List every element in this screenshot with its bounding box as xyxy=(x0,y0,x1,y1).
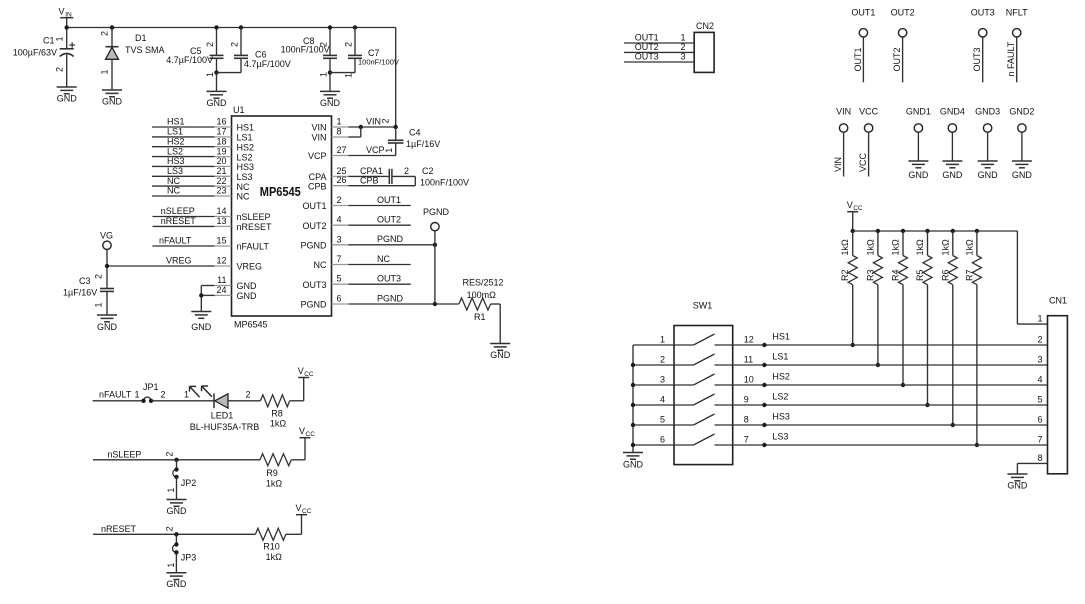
svg-text:20: 20 xyxy=(216,156,226,166)
svg-text:PGND: PGND xyxy=(300,300,327,310)
svg-text:2: 2 xyxy=(381,118,391,123)
svg-text:R9: R9 xyxy=(266,468,278,478)
svg-text:9: 9 xyxy=(744,395,749,405)
svg-text:1kΩ: 1kΩ xyxy=(891,239,901,256)
svg-text:C3: C3 xyxy=(79,276,91,286)
svg-text:LS1: LS1 xyxy=(772,351,788,361)
svg-text:2: 2 xyxy=(337,195,342,205)
svg-text:CC: CC xyxy=(306,431,316,438)
svg-text:OUT2: OUT2 xyxy=(635,42,659,52)
svg-text:JP3: JP3 xyxy=(181,553,197,563)
svg-text:R10: R10 xyxy=(263,542,280,552)
svg-text:CN2: CN2 xyxy=(696,21,714,31)
svg-text:LS2: LS2 xyxy=(772,391,788,401)
svg-text:nRESET: nRESET xyxy=(101,524,137,534)
svg-text:OUT3: OUT3 xyxy=(972,47,982,71)
svg-text:2: 2 xyxy=(94,274,104,279)
svg-text:CN1: CN1 xyxy=(1049,296,1067,306)
svg-text:VIN: VIN xyxy=(311,123,326,133)
svg-text:4.7µF/100V: 4.7µF/100V xyxy=(166,55,213,65)
svg-text:1kΩ: 1kΩ xyxy=(270,419,287,429)
svg-text:HS3: HS3 xyxy=(237,162,255,172)
svg-text:OUT1: OUT1 xyxy=(853,47,863,71)
svg-text:100nF/100V: 100nF/100V xyxy=(358,58,399,67)
svg-text:D1: D1 xyxy=(135,33,147,43)
svg-text:3: 3 xyxy=(660,375,665,385)
svg-text:GND: GND xyxy=(978,170,999,180)
svg-text:TVS SMA: TVS SMA xyxy=(125,45,165,55)
svg-text:2: 2 xyxy=(205,42,215,47)
svg-text:OUT1: OUT1 xyxy=(302,201,326,211)
svg-text:OUT3: OUT3 xyxy=(377,274,401,284)
svg-text:C4: C4 xyxy=(409,128,421,138)
svg-text:26: 26 xyxy=(337,175,347,185)
svg-text:OUT2: OUT2 xyxy=(302,221,326,231)
svg-text:VCC: VCC xyxy=(858,152,868,172)
svg-text:CC: CC xyxy=(304,371,314,378)
svg-text:4: 4 xyxy=(660,395,665,405)
svg-text:BL-HUF35A-TRB: BL-HUF35A-TRB xyxy=(190,422,260,432)
svg-text:2: 2 xyxy=(660,355,665,365)
svg-text:2: 2 xyxy=(161,390,166,400)
svg-text:LS1: LS1 xyxy=(237,133,253,143)
svg-text:1kΩ: 1kΩ xyxy=(266,552,283,562)
svg-text:nSLEEP: nSLEEP xyxy=(107,449,141,459)
svg-text:VIN: VIN xyxy=(366,116,381,126)
svg-text:CPB: CPB xyxy=(308,181,327,191)
svg-text:7: 7 xyxy=(1037,435,1042,445)
svg-text:R1: R1 xyxy=(474,312,486,322)
svg-text:GND: GND xyxy=(623,460,644,470)
svg-text:PGND: PGND xyxy=(377,234,404,244)
svg-text:2: 2 xyxy=(680,42,685,52)
svg-text:OUT1: OUT1 xyxy=(377,195,401,205)
svg-text:VCP: VCP xyxy=(308,151,327,161)
svg-text:22: 22 xyxy=(216,176,226,186)
svg-text:17: 17 xyxy=(216,127,226,137)
svg-text:1: 1 xyxy=(660,335,665,345)
svg-text:CC: CC xyxy=(302,508,312,515)
svg-text:1: 1 xyxy=(55,36,65,41)
svg-text:14: 14 xyxy=(216,206,226,216)
svg-text:VIN: VIN xyxy=(311,133,326,143)
svg-text:2: 2 xyxy=(404,166,409,176)
svg-text:R3: R3 xyxy=(865,269,875,281)
svg-text:OUT3: OUT3 xyxy=(302,280,326,290)
svg-text:4: 4 xyxy=(1037,375,1042,385)
svg-text:1: 1 xyxy=(337,117,342,127)
svg-text:PGND: PGND xyxy=(423,207,450,217)
svg-text:GND2: GND2 xyxy=(1009,107,1034,117)
svg-text:1kΩ: 1kΩ xyxy=(266,479,283,489)
svg-text:2: 2 xyxy=(1037,335,1042,345)
svg-text:GND: GND xyxy=(97,322,118,332)
svg-text:nRESET: nRESET xyxy=(161,216,197,226)
svg-text:15: 15 xyxy=(216,236,226,246)
svg-text:GND: GND xyxy=(908,170,929,180)
svg-text:RES/2512: RES/2512 xyxy=(463,278,504,288)
svg-text:R7: R7 xyxy=(964,269,974,281)
svg-text:1kΩ: 1kΩ xyxy=(964,239,974,256)
svg-text:8: 8 xyxy=(744,415,749,425)
svg-text:NC: NC xyxy=(237,192,250,202)
svg-text:IN: IN xyxy=(65,12,72,19)
svg-text:C6: C6 xyxy=(255,50,267,60)
svg-text:11: 11 xyxy=(217,275,226,285)
svg-text:JP2: JP2 xyxy=(181,478,197,488)
svg-text:GND: GND xyxy=(1007,481,1028,491)
svg-text:13: 13 xyxy=(216,216,226,226)
svg-text:GND: GND xyxy=(1012,170,1033,180)
svg-text:R2: R2 xyxy=(840,269,850,281)
svg-text:LS2: LS2 xyxy=(167,146,183,156)
svg-text:3: 3 xyxy=(1037,355,1042,365)
svg-text:LED1: LED1 xyxy=(211,410,234,420)
svg-text:GND: GND xyxy=(57,94,78,104)
svg-text:18: 18 xyxy=(216,136,226,146)
svg-text:NC: NC xyxy=(167,176,180,186)
svg-text:OUT2: OUT2 xyxy=(891,8,915,18)
svg-text:GND: GND xyxy=(167,506,188,516)
svg-text:OUT3: OUT3 xyxy=(635,52,659,62)
svg-text:nFAULT: nFAULT xyxy=(237,242,270,252)
svg-text:SW1: SW1 xyxy=(693,301,713,311)
svg-text:V: V xyxy=(847,200,853,210)
svg-text:2: 2 xyxy=(165,452,175,457)
svg-text:1kΩ: 1kΩ xyxy=(915,239,925,256)
svg-text:GND: GND xyxy=(237,291,258,301)
svg-text:HS1: HS1 xyxy=(237,123,255,133)
svg-text:2: 2 xyxy=(100,31,110,36)
svg-text:7: 7 xyxy=(744,435,749,445)
svg-text:GND: GND xyxy=(102,97,123,107)
svg-text:NC: NC xyxy=(237,182,250,192)
svg-text:19: 19 xyxy=(216,146,226,156)
svg-text:GND: GND xyxy=(942,170,963,180)
svg-text:GND: GND xyxy=(207,98,228,108)
svg-text:LS2: LS2 xyxy=(237,152,253,162)
svg-text:C2: C2 xyxy=(422,166,434,176)
svg-text:100nF/100V: 100nF/100V xyxy=(420,178,469,188)
svg-text:27: 27 xyxy=(337,145,347,155)
svg-text:23: 23 xyxy=(216,186,226,196)
svg-text:V: V xyxy=(299,426,305,436)
svg-text:LS1: LS1 xyxy=(167,127,183,137)
svg-text:11: 11 xyxy=(744,355,753,365)
svg-text:VIN: VIN xyxy=(833,157,843,172)
svg-text:VG: VG xyxy=(100,231,113,241)
svg-text:NC: NC xyxy=(314,260,327,270)
svg-text:HS3: HS3 xyxy=(167,156,185,166)
svg-text:GND3: GND3 xyxy=(975,107,1000,117)
svg-text:C1: C1 xyxy=(43,36,55,46)
svg-text:8: 8 xyxy=(337,127,342,137)
svg-text:GND: GND xyxy=(320,98,341,108)
svg-text:1µF/16V: 1µF/16V xyxy=(406,139,440,149)
svg-text:OUT1: OUT1 xyxy=(851,8,875,18)
svg-text:HS3: HS3 xyxy=(772,411,790,421)
svg-text:12: 12 xyxy=(744,335,754,345)
svg-text:1: 1 xyxy=(100,69,110,74)
svg-text:VREG: VREG xyxy=(237,262,263,272)
svg-text:7: 7 xyxy=(337,254,342,264)
svg-text:1: 1 xyxy=(319,72,329,77)
svg-text:CPB: CPB xyxy=(360,175,379,185)
svg-text:16: 16 xyxy=(216,117,226,127)
svg-text:VCP: VCP xyxy=(366,145,385,155)
svg-text:2: 2 xyxy=(246,390,251,400)
svg-text:HS2: HS2 xyxy=(237,142,255,152)
svg-text:2: 2 xyxy=(55,67,65,72)
svg-text:1µF/16V: 1µF/16V xyxy=(63,288,97,298)
svg-text:21: 21 xyxy=(216,166,226,176)
svg-text:1: 1 xyxy=(135,390,140,400)
svg-text:1: 1 xyxy=(166,563,176,568)
svg-text:10: 10 xyxy=(744,375,754,385)
svg-text:4.7µF/100V: 4.7µF/100V xyxy=(244,59,291,69)
svg-text:R5: R5 xyxy=(915,269,925,281)
svg-text:HS1: HS1 xyxy=(167,117,185,127)
svg-text:2: 2 xyxy=(344,42,354,47)
svg-text:R8: R8 xyxy=(271,408,283,418)
svg-text:1: 1 xyxy=(384,148,394,153)
svg-text:nFAULT: nFAULT xyxy=(99,390,132,400)
svg-text:6: 6 xyxy=(1037,415,1042,425)
svg-text:JP1: JP1 xyxy=(143,382,159,392)
svg-text:OUT2: OUT2 xyxy=(892,47,902,71)
svg-text:U1: U1 xyxy=(233,105,245,115)
svg-text:GND: GND xyxy=(166,579,187,589)
svg-text:5: 5 xyxy=(660,415,665,425)
svg-text:NC: NC xyxy=(167,186,180,196)
svg-text:V: V xyxy=(298,366,304,376)
svg-text:3: 3 xyxy=(680,52,685,62)
svg-text:HS2: HS2 xyxy=(167,136,185,146)
svg-text:1: 1 xyxy=(344,73,354,78)
svg-text:PGND: PGND xyxy=(300,241,327,251)
svg-text:GND: GND xyxy=(191,322,212,332)
svg-text:nSLEEP: nSLEEP xyxy=(161,206,195,216)
svg-text:1: 1 xyxy=(205,72,215,77)
svg-text:n FAULT: n FAULT xyxy=(1006,41,1016,76)
svg-text:2: 2 xyxy=(164,526,174,531)
svg-text:VCC: VCC xyxy=(859,107,879,117)
svg-text:GND: GND xyxy=(237,281,258,291)
svg-text:V: V xyxy=(59,7,65,17)
svg-text:12: 12 xyxy=(216,256,226,266)
svg-text:1: 1 xyxy=(184,390,189,400)
svg-text:NFLT: NFLT xyxy=(1006,8,1028,18)
svg-text:1kΩ: 1kΩ xyxy=(840,239,850,256)
svg-text:GND4: GND4 xyxy=(940,107,965,117)
svg-text:LS3: LS3 xyxy=(237,172,253,182)
svg-text:MP6545: MP6545 xyxy=(234,320,268,330)
svg-text:V: V xyxy=(296,503,302,513)
svg-text:nSLEEP: nSLEEP xyxy=(237,212,271,222)
svg-text:HS2: HS2 xyxy=(772,371,790,381)
svg-text:nFAULT: nFAULT xyxy=(159,236,192,246)
svg-text:1kΩ: 1kΩ xyxy=(865,239,875,256)
svg-text:5: 5 xyxy=(1037,395,1042,405)
svg-text:2: 2 xyxy=(230,42,240,47)
svg-text:OUT2: OUT2 xyxy=(377,215,401,225)
svg-text:MP6545: MP6545 xyxy=(260,185,301,199)
svg-text:R4: R4 xyxy=(891,269,901,281)
svg-text:2: 2 xyxy=(319,42,329,47)
svg-text:R6: R6 xyxy=(940,269,950,281)
svg-text:C7: C7 xyxy=(368,48,380,58)
svg-text:LS3: LS3 xyxy=(167,166,183,176)
svg-text:nRESET: nRESET xyxy=(237,222,273,232)
svg-text:1: 1 xyxy=(94,302,104,307)
svg-text:HS1: HS1 xyxy=(772,331,790,341)
svg-text:LS3: LS3 xyxy=(772,431,788,441)
svg-text:24: 24 xyxy=(216,285,226,295)
svg-text:NC: NC xyxy=(377,254,390,264)
svg-text:VREG: VREG xyxy=(166,256,192,266)
svg-text:VIN: VIN xyxy=(836,107,851,117)
svg-text:1: 1 xyxy=(166,488,176,493)
svg-text:6: 6 xyxy=(337,294,342,304)
svg-text:GND: GND xyxy=(490,350,511,360)
svg-text:GND1: GND1 xyxy=(906,107,931,117)
svg-text:1kΩ: 1kΩ xyxy=(940,239,950,256)
svg-text:PGND: PGND xyxy=(377,293,404,303)
svg-text:8: 8 xyxy=(1037,453,1042,463)
svg-text:OUT3: OUT3 xyxy=(971,8,995,18)
svg-text:100µF/63V: 100µF/63V xyxy=(13,48,57,58)
svg-text:1: 1 xyxy=(1037,314,1042,324)
svg-text:6: 6 xyxy=(660,435,665,445)
svg-text:5: 5 xyxy=(337,274,342,284)
svg-text:3: 3 xyxy=(337,234,342,244)
svg-text:4: 4 xyxy=(337,215,342,225)
svg-text:100mΩ: 100mΩ xyxy=(467,290,497,300)
svg-text:CC: CC xyxy=(853,205,863,212)
